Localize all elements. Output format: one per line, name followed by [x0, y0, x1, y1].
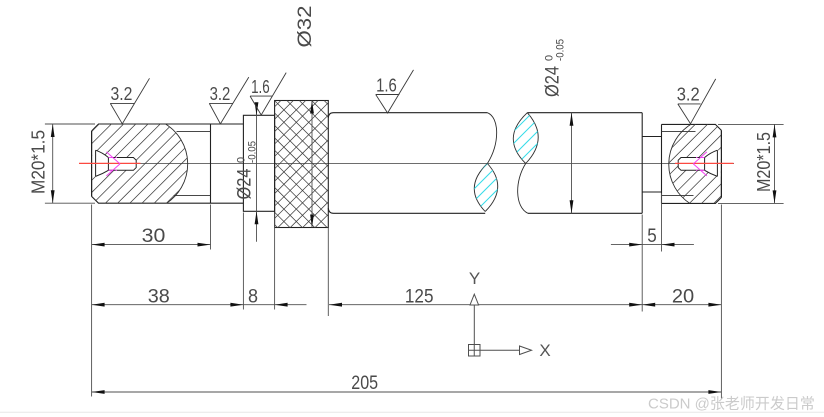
break lens hatch right (cyan): [453, 108, 597, 168]
svg-text:Ø24: Ø24: [235, 168, 256, 199]
svg-text:3.2: 3.2: [677, 85, 700, 105]
left thread section arc (broken-out section boundary): [166, 124, 188, 203]
dim M20*1.5 left: [45, 123, 95, 125]
dim 205: [92, 391, 722, 393]
knurled phi32 section: [275, 101, 329, 228]
dim M20*1.5 right: [718, 123, 784, 125]
dim 30: [92, 244, 211, 246]
shank section 210.5-243.4: [211, 124, 244, 203]
centerline: [79, 163, 734, 165]
UCS icon: [469, 294, 532, 356]
watermark line: [0, 411, 824, 413]
dim 8: [275, 303, 288, 307]
roughness 3.2 right thread: [678, 79, 716, 124]
right thread section outline: [662, 124, 722, 203]
svg-text:30: 30: [142, 226, 166, 247]
dim phi24 -0.05 right: [571, 113, 573, 214]
right thread minor diameter lines: [662, 131, 696, 133]
left face line over hole: [91, 131, 93, 196]
long phi24 section left part: [328, 113, 487, 214]
extension lines: [91, 205, 93, 397]
svg-text:Ø32: Ø32: [295, 6, 316, 48]
svg-text:1.6: 1.6: [251, 77, 270, 97]
dim phi24 -0.05 left: [256, 104, 258, 242]
break lens hatch left (cyan): [412, 160, 551, 215]
break S-curve left: [474, 113, 497, 212]
dim 125: [329, 304, 642, 306]
magenta marker right: [693, 152, 707, 176]
svg-text:Ø24: Ø24: [543, 66, 564, 97]
dim 20: [642, 304, 721, 306]
right center hole outline: [678, 150, 717, 176]
right center hole (white): [678, 150, 721, 176]
left center hole outline: [96, 150, 137, 176]
svg-text:5: 5: [647, 226, 657, 247]
roughness 3.2 shank: [209, 77, 249, 124]
right face line over hole: [720, 130, 722, 197]
svg-text:205: 205: [351, 373, 378, 394]
red centerline left: [79, 162, 141, 164]
red centerline right: [675, 162, 734, 164]
phi24 collar section: [243, 115, 274, 211]
svg-text:1.6: 1.6: [376, 75, 397, 95]
svg-text:Y: Y: [469, 269, 480, 288]
svg-text:8: 8: [248, 286, 258, 307]
dim 38: [92, 304, 307, 306]
roughness 1.6 collar: [250, 73, 286, 115]
long phi24 section right part: [527, 113, 642, 214]
roughness 3.2 left thread: [110, 78, 149, 124]
svg-text:3.2: 3.2: [210, 84, 231, 104]
svg-text:3.2: 3.2: [110, 84, 132, 104]
svg-text:-0.05: -0.05: [555, 39, 567, 61]
roughness 1.6 long section: [376, 70, 414, 113]
svg-text:38: 38: [148, 286, 170, 307]
right thread section arc: [669, 124, 691, 203]
knurl cross-hatch: [137, 34, 460, 285]
svg-text:M20*1.5: M20*1.5: [754, 132, 774, 192]
svg-text:X: X: [539, 341, 550, 360]
break S-curve right: [513, 113, 538, 214]
svg-text:125: 125: [405, 286, 434, 307]
left thread section outline: [92, 124, 211, 203]
left center hole (white): [92, 150, 136, 176]
svg-text:20: 20: [672, 286, 694, 307]
dim phi32: [311, 101, 313, 228]
dim 5: [611, 244, 694, 246]
left thread hatching: [3, 120, 274, 208]
magenta marker left: [106, 152, 120, 176]
relief groove: [642, 137, 661, 193]
svg-text:-0.05: -0.05: [247, 141, 259, 163]
left thread minor diameter lines: [177, 131, 211, 133]
svg-text:M20*1.5: M20*1.5: [29, 130, 49, 194]
svg-text:CSDN @张老师开发日常: CSDN @张老师开发日常: [648, 396, 815, 413]
right thread hatching: [575, 120, 809, 208]
